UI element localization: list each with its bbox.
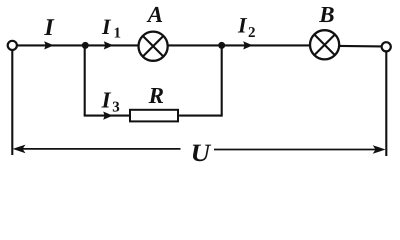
wire branch left to resistor: [84, 115, 130, 117]
wire left terminal to node J1: [17, 44, 85, 46]
svg-text:3: 3: [112, 100, 120, 116]
wire node J1 to lamp A: [85, 44, 138, 46]
svg-text:A: A: [146, 2, 163, 27]
wire node J1 down to branch: [84, 45, 86, 115]
svg-text:I: I: [101, 87, 112, 112]
wire left terminal down: [11, 50, 13, 155]
wire right riser up to node J2: [221, 45, 223, 116]
svg-text:I: I: [101, 14, 112, 39]
svg-text:R: R: [148, 83, 164, 108]
arrow I3: [103, 112, 113, 120]
label I3: [101, 87, 120, 115]
label I1: [101, 14, 121, 42]
voltage arrow U left part: [13, 145, 181, 154]
lamp A: [139, 32, 168, 61]
svg-text:I: I: [43, 15, 55, 41]
svg-text:2: 2: [248, 25, 256, 41]
terminal left: [8, 41, 17, 50]
arrow I: [44, 41, 54, 49]
svg-text:1: 1: [114, 26, 122, 42]
label I2: [237, 13, 256, 41]
wire right terminal down: [385, 51, 387, 156]
arrow I2: [243, 41, 253, 49]
voltage arrow U right part: [214, 145, 386, 154]
svg-text:B: B: [318, 2, 334, 27]
node J2: [218, 42, 225, 49]
wire node J2 to lamp B: [222, 44, 310, 46]
terminal right: [382, 42, 391, 51]
lamp B: [310, 30, 339, 59]
wire lamp B to right terminal: [339, 45, 382, 48]
resistor R: [130, 110, 178, 122]
arrow I1: [104, 41, 114, 49]
node J1: [82, 42, 89, 49]
wire resistor to right riser: [179, 115, 222, 117]
svg-text:U: U: [191, 140, 213, 165]
svg-text:I: I: [237, 13, 248, 38]
wire lamp A to node J2: [168, 44, 222, 46]
